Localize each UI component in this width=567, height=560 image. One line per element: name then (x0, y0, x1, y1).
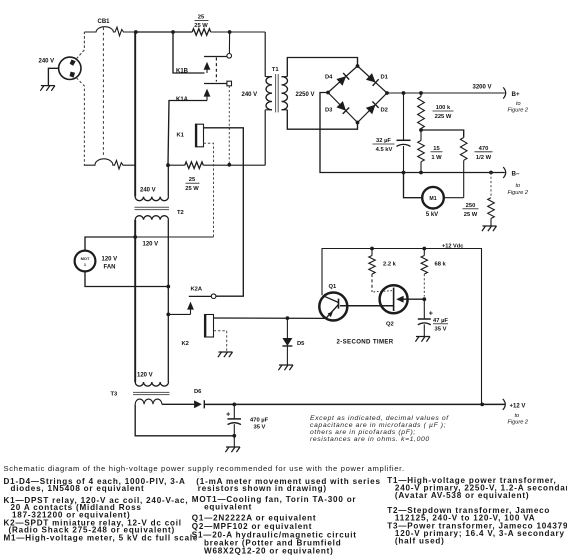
wire 470uF bottom lead (233, 424, 235, 447)
contact K1B arrow (204, 62, 211, 70)
svg-text:240 V: 240 V (242, 92, 258, 98)
svg-text:capacitance are in microfarads: capacitance are in microfarads ( µF ); (310, 422, 446, 429)
node bridge bottom vertex (356, 121, 360, 125)
svg-text:470 µF: 470 µF (250, 417, 269, 423)
wire T1 primary top feed (264, 32, 266, 77)
svg-text:120 V: 120 V (102, 256, 118, 262)
breaker CB1 mechanical link (dashed) (102, 28, 104, 157)
contact K1B terminal circle (227, 54, 232, 59)
wire K2 coil right to ground (faint) (214, 331, 227, 351)
svg-text:470: 470 (479, 146, 489, 152)
wire Q1 base to Q2 (340, 305, 394, 307)
node 470uF return junction (232, 434, 236, 438)
svg-text:Figure 2: Figure 2 (508, 190, 529, 196)
wire K1B terminal to top rail (228, 32, 230, 54)
wire 470uF top lead (233, 404, 235, 419)
wire +12V bottom rail (204, 403, 505, 405)
svg-text:25 W: 25 W (464, 212, 478, 218)
wire D5 bottom lead (286, 346, 288, 365)
svg-text:35 V: 35 V (435, 326, 447, 332)
wire 47uF bottom lead (423, 324, 425, 336)
wire K2 coil to timer rail (214, 317, 326, 319)
svg-text:120 V: 120 V (137, 372, 153, 378)
bridge leg top-right (358, 66, 388, 93)
resistor 25 ohm (top step-start) (192, 29, 211, 36)
svg-text:35 V: 35 V (254, 424, 266, 430)
svg-text:250: 250 (466, 203, 476, 209)
svg-text:resistors shown in drawing): resistors shown in drawing) (198, 484, 327, 493)
node fan bottom junction (166, 285, 170, 289)
svg-text:1 W: 1 W (431, 155, 442, 161)
svg-text:D1: D1 (381, 75, 389, 81)
wire K1A terminal to bottom rail (faint) (228, 86, 230, 165)
breaker CB1 pole B (bottom) (84, 159, 135, 169)
svg-text:2.2 k: 2.2 k (383, 262, 397, 268)
svg-text:68 k: 68 k (435, 262, 447, 268)
T2 core (135, 206, 170, 208)
transformer T3 primary coil (135, 382, 168, 386)
svg-text:to: to (516, 183, 521, 189)
contact K1B bar (204, 56, 227, 58)
transformer T1 secondary coil (282, 76, 288, 78)
ground below 470uF (226, 446, 240, 448)
diode D4 (336, 76, 346, 85)
svg-text:32 µF: 32 µF (376, 138, 391, 144)
svg-text:K1: K1 (177, 132, 185, 138)
ground below 47uF (416, 336, 430, 338)
transformer T1 primary coil (265, 76, 272, 78)
wire 47uF top lead (423, 299, 425, 319)
svg-text:4.5 kV: 4.5 kV (376, 147, 393, 153)
node bottom rail left junction (166, 163, 170, 167)
wire right control bus T2 primary feed (167, 165, 169, 196)
transistor Q1 (319, 293, 347, 321)
capacitor 32uF plates (397, 139, 411, 141)
label 47 uF / 35 V (433, 318, 448, 332)
relay coil K2 box (205, 315, 214, 338)
svg-text:Schematic diagram of the high-: Schematic diagram of the high-voltage po… (4, 464, 405, 473)
node B- 250 tap (489, 171, 493, 175)
resistor 250 (488, 198, 495, 219)
terminal B+ bracket (503, 87, 506, 98)
resistor 100k (418, 97, 425, 129)
node K2A control bus junction (166, 313, 170, 317)
transistor Q2 (380, 285, 425, 313)
wire left bus (240V leg A) (134, 32, 136, 197)
motor MOT1 (fan) (75, 251, 96, 272)
contact K2A arrow (187, 302, 194, 310)
wire K1 coil bottom to T2 line (faint) (204, 143, 214, 237)
AC input plug P1 (59, 57, 81, 79)
svg-text:K1B: K1B (176, 69, 189, 75)
resistor 15 ohm (418, 141, 425, 162)
wire meter right lead (444, 197, 464, 199)
label 25 / 25 W (top) (194, 15, 208, 30)
resistor 68k (421, 256, 427, 275)
wire bottom rail to resistor (168, 164, 185, 166)
terminal +12V bracket (503, 399, 506, 410)
svg-text:M1: M1 (429, 196, 436, 202)
wire K1 coil top to K2A (204, 128, 244, 296)
wire fan bottom lead (85, 271, 168, 286)
svg-text:FAN: FAN (104, 265, 116, 271)
node 2.2k tap (370, 247, 374, 251)
node D5 junction (286, 316, 290, 320)
terminal B- bracket (503, 167, 506, 178)
svg-text:to: to (515, 413, 520, 419)
bridge leg bottom-left (328, 93, 358, 123)
wire plug bottom pin to bottom rail (76, 78, 84, 165)
node 68k tap (422, 247, 426, 251)
svg-text:2-SECOND TIMER: 2-SECOND TIMER (337, 339, 394, 346)
wire 15 ohm top lead (420, 130, 422, 141)
wire top rail (136, 31, 192, 33)
resistor 470 (460, 138, 467, 161)
svg-text:1/2 W: 1/2 W (476, 155, 492, 161)
transformer T3 secondary coil (135, 399, 162, 404)
ground below D5 (279, 364, 293, 366)
wire T1 secondary top to bridge (287, 58, 357, 77)
svg-text:diodes, 1N5408 or equivalent: diodes, 1N5408 or equivalent (11, 484, 145, 493)
label 15 / 1 W (431, 146, 443, 161)
wire 250 bottom lead (490, 219, 492, 227)
node T2 secondary left junction (133, 235, 137, 239)
svg-text:Q2—MPF102 or equivalent: Q2—MPF102 or equivalent (192, 522, 313, 531)
svg-text:240 V: 240 V (39, 58, 55, 64)
relay coil K1 box (196, 124, 204, 147)
svg-text:D2: D2 (381, 107, 388, 113)
svg-text:2250 V: 2250 V (296, 92, 315, 98)
svg-text:B–: B– (512, 171, 520, 178)
label 470 / 1/2 W (475, 146, 493, 161)
svg-text:K1A: K1A (176, 97, 189, 103)
wire T1 secondary bottom to bridge (287, 110, 357, 129)
wire B+ rail (387, 92, 505, 94)
svg-text:100 k: 100 k (436, 105, 451, 111)
svg-text:15: 15 (433, 146, 440, 152)
transformer T2 secondary coil (135, 216, 168, 220)
ground below 250 (483, 225, 497, 227)
wire cap 32uF top lead (403, 93, 405, 140)
svg-text:120 V: 120 V (143, 241, 159, 247)
meter M1 (422, 187, 444, 209)
capacitor 470uF plates (228, 418, 242, 420)
wire right control bus below T2 (167, 220, 169, 382)
node top rail K1B tap (171, 30, 175, 34)
svg-text:25 W: 25 W (185, 186, 199, 192)
svg-text:225 W: 225 W (435, 114, 452, 120)
wire bridge left vertex down (320, 93, 505, 173)
diode D3 (336, 101, 346, 111)
wire plug top pin to top rail (76, 32, 84, 59)
wire +12V timer rail (322, 249, 482, 405)
contact K1A terminal square (227, 81, 232, 86)
node bridge top vertex (356, 64, 360, 68)
wire left bus below T2 (134, 220, 136, 382)
wire fan top lead (85, 237, 135, 251)
svg-text:resistances are in ohms. k=1,0: resistances are in ohms. k=1,000 (310, 436, 430, 443)
svg-text:D5: D5 (297, 341, 305, 347)
svg-text:Figure 2: Figure 2 (508, 420, 529, 426)
wire 100k junction to 470 (421, 130, 464, 138)
svg-text:equivalent: equivalent (204, 502, 252, 511)
svg-text:25: 25 (189, 177, 196, 183)
T3 core (133, 391, 170, 393)
wire 100k top lead (420, 93, 422, 97)
node top rail junction at left bus (134, 30, 138, 34)
node bridge left vertex (326, 91, 330, 95)
breaker CB1 pole A (top) (84, 27, 135, 36)
T1 core (275, 74, 277, 112)
wire K2A leg to control bus (168, 313, 190, 315)
svg-text:D4: D4 (325, 75, 333, 81)
resistor 2.2k (369, 256, 375, 275)
link K1B-K1A (dashed) (215, 58, 217, 82)
node bottom rail K1A tap (227, 163, 231, 167)
node 470uF tap (232, 403, 236, 407)
svg-text:47 µF: 47 µF (433, 318, 448, 324)
svg-text:W68X2Q12-20 or equivalent): W68X2Q12-20 or equivalent) (204, 547, 334, 556)
wire plug left lead (48, 68, 58, 85)
wire T2 secondary left to K1 drop (135, 236, 213, 238)
node B+ 100k tap (419, 91, 423, 95)
svg-text:T1: T1 (272, 67, 280, 73)
svg-text:Figure 2: Figure 2 (508, 107, 529, 113)
wire K1B left leg (173, 32, 205, 73)
svg-text:25: 25 (198, 15, 205, 21)
diode D5 (282, 338, 292, 346)
ground below K2 (219, 351, 233, 353)
contact K2A bar (189, 295, 212, 297)
diode D6 (194, 400, 202, 408)
svg-text:B+: B+ (512, 91, 520, 98)
contact K1A bar (204, 83, 227, 85)
svg-text:MOT: MOT (81, 256, 90, 261)
wire 15 ohm bottom lead (420, 162, 422, 173)
node top rail K1B terminal tap (228, 30, 232, 34)
capacitor 47uF plates (418, 318, 431, 320)
wire bottom rail right segment (203, 164, 265, 166)
bridge leg bottom-right (358, 93, 388, 123)
contact K2A terminal circle (211, 294, 216, 299)
wire T3 secondary return (135, 404, 234, 436)
wire cap 32uF bottom lead (403, 146, 405, 173)
node Q2 gate junction (422, 297, 426, 301)
svg-text:others are in picofarads (pF);: others are in picofarads (pF); (310, 429, 416, 436)
svg-text:Q2: Q2 (386, 322, 394, 328)
label 100 k / 225 W (433, 105, 454, 120)
wire top rail right segment (211, 31, 266, 33)
wire meter left lead (404, 173, 423, 198)
ground at plug (41, 85, 55, 87)
svg-text:240 V: 240 V (140, 187, 156, 193)
svg-text:Q1: Q1 (329, 284, 338, 290)
wire T1 primary bottom feed (264, 110, 266, 165)
svg-text:D6: D6 (194, 389, 202, 395)
wire K1A leg to bottom rail (168, 101, 207, 166)
svg-text:+: + (226, 412, 230, 419)
node B+ cap tap (402, 91, 406, 95)
svg-text:T2: T2 (177, 210, 184, 216)
node +12V riser tap (480, 403, 484, 407)
diode D1 (366, 73, 376, 82)
wire 470 bottom lead to meter (463, 160, 465, 197)
svg-text:+12 Vdc: +12 Vdc (442, 243, 463, 249)
transformer T2 primary coil (135, 197, 168, 201)
svg-text:T3: T3 (111, 391, 119, 397)
svg-text:(Avatar AV-538 or equivalent): (Avatar AV-538 or equivalent) (395, 491, 529, 500)
svg-text:M1—High-voltage meter, 5 kV dc: M1—High-voltage meter, 5 kV dc full scal… (4, 534, 199, 543)
wire T3 secondary right to D6 (162, 403, 194, 405)
wire D5 top lead (286, 318, 288, 338)
svg-text:+: + (429, 310, 433, 317)
wire 2.2k to Q2 drain (dashed) (371, 274, 373, 292)
svg-text:Except as indicated, decimal v: Except as indicated, decimal values of (310, 415, 449, 422)
svg-text:3200 V: 3200 V (473, 84, 492, 90)
svg-text:CB1: CB1 (98, 19, 111, 25)
svg-text:+12 V: +12 V (510, 403, 526, 409)
label 250 / 25 W (463, 203, 479, 218)
node bridge right vertex (385, 91, 389, 95)
svg-text:D3: D3 (325, 107, 333, 113)
svg-text:to: to (516, 101, 521, 107)
svg-text:K2: K2 (182, 341, 189, 347)
wire 250 top lead (faint) (490, 173, 492, 198)
svg-text:(half used): (half used) (395, 536, 445, 545)
node B- 15 tap (419, 171, 423, 175)
bridge leg top-left (328, 66, 358, 93)
svg-text:5 kV: 5 kV (426, 212, 438, 218)
svg-text:25 W: 25 W (194, 23, 208, 29)
svg-text:K2A: K2A (191, 287, 203, 293)
node 100k-15 junction (419, 128, 423, 132)
wire 68k to gate node (faint) (423, 274, 425, 297)
label 32 uF / 4.5 kV (373, 138, 395, 153)
contact K1A arrow (204, 89, 211, 97)
node B- cap tap (402, 171, 406, 175)
diode D2 (366, 105, 376, 115)
resistor 25 ohm (bottom step-start) (185, 162, 204, 169)
label 25 / 25 W (bottom) (185, 177, 199, 192)
